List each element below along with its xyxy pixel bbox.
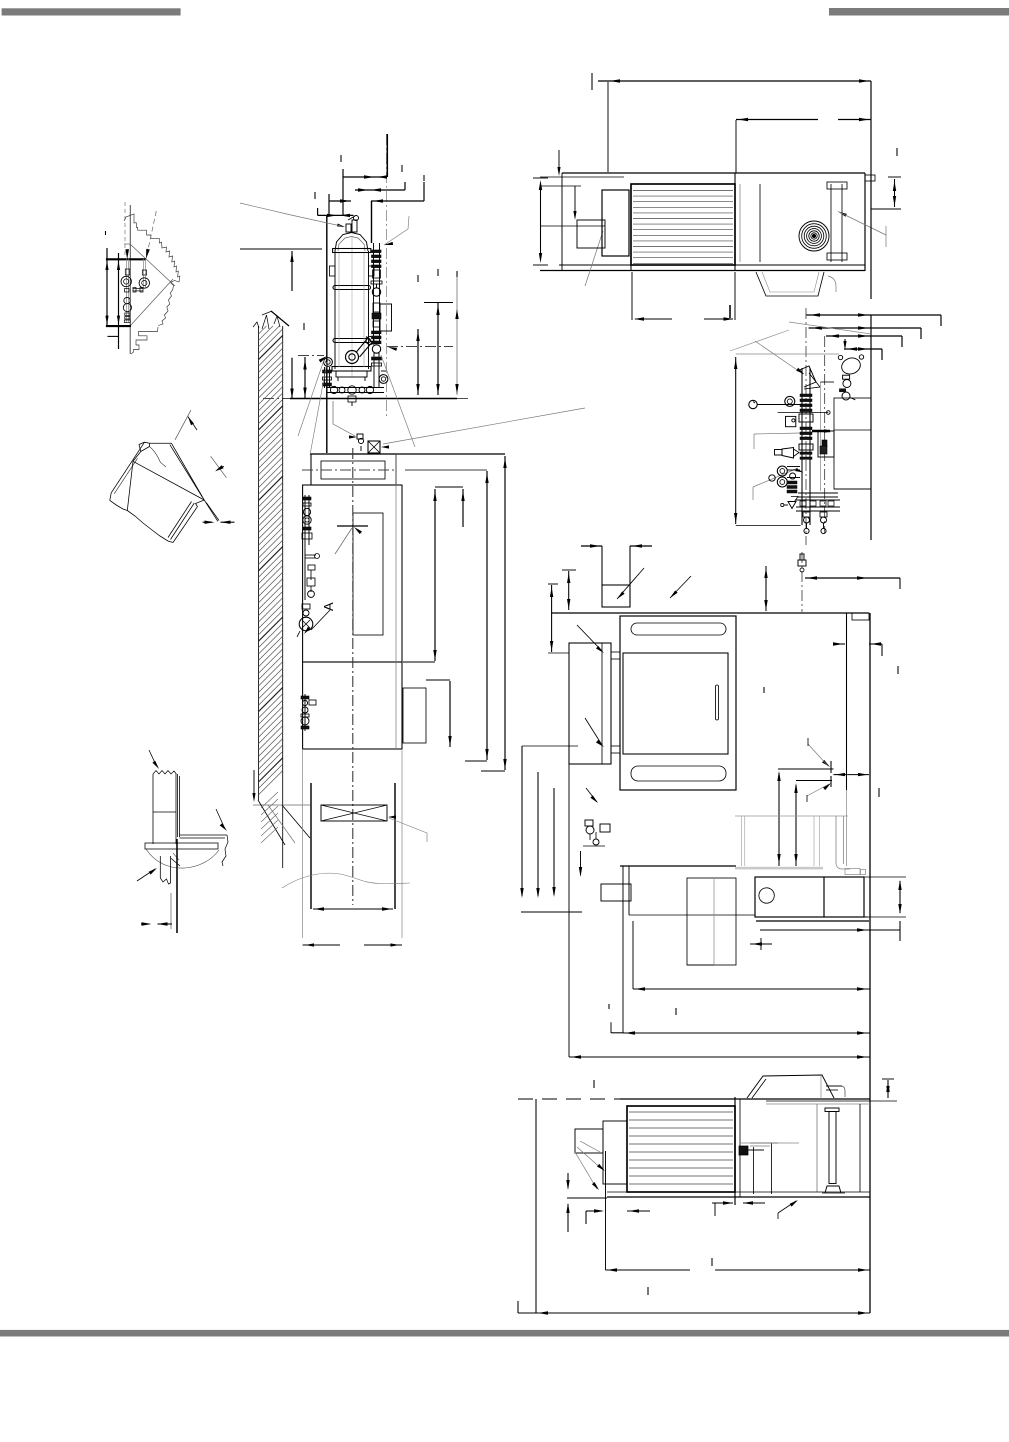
svg-text:A: A (321, 602, 336, 611)
